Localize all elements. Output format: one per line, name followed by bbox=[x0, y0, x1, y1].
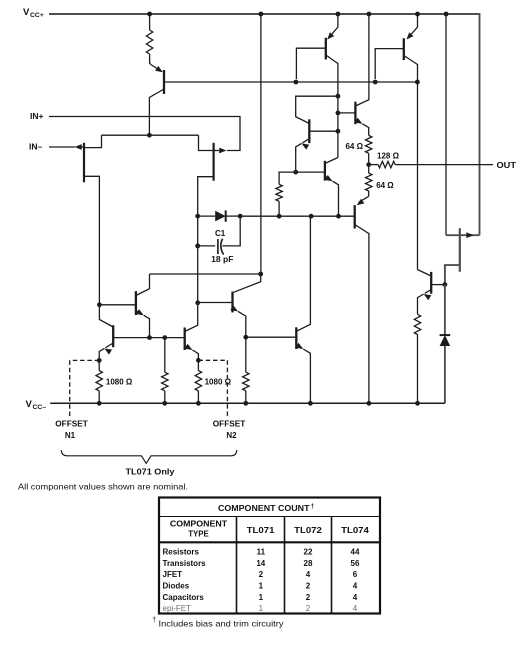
wire Q2 collector bbox=[337, 63, 339, 158]
wire Q13 base wire bbox=[246, 336, 296, 338]
wire Q7 base bbox=[296, 171, 325, 173]
label TL071 Only bbox=[126, 467, 175, 477]
label C1 bbox=[215, 229, 226, 238]
svg-text:Capacitors: Capacitors bbox=[163, 593, 205, 602]
svg-text:1080 Ω: 1080 Ω bbox=[106, 377, 133, 386]
svg-text:OFFSET: OFFSET bbox=[213, 420, 246, 429]
resistor R4 64ohm bbox=[366, 165, 372, 197]
svg-text:1: 1 bbox=[259, 581, 264, 590]
label footnote bbox=[152, 617, 284, 629]
wire source tie bbox=[102, 134, 199, 136]
resistor R2 64ohm bbox=[366, 135, 372, 164]
svg-text:1: 1 bbox=[259, 604, 264, 613]
resistor R1 bbox=[146, 14, 152, 65]
label 1080 N1 bbox=[106, 377, 133, 386]
label 1080 N2 bbox=[205, 377, 232, 386]
resistor R6 1080 bbox=[96, 360, 102, 403]
wire Q9Q10 base tie bbox=[99, 304, 135, 306]
node VCC- dots bbox=[97, 401, 420, 406]
svg-text:1080 Ω: 1080 Ω bbox=[205, 377, 232, 386]
node out mid bbox=[366, 162, 371, 167]
label 64 upper bbox=[345, 142, 363, 151]
svg-text:Includes bias and trim circuit: Includes bias and trim circuitry bbox=[159, 620, 285, 629]
node C1 left node bbox=[195, 244, 200, 249]
svg-text:TL071: TL071 bbox=[247, 525, 275, 535]
svg-text:2: 2 bbox=[306, 581, 311, 590]
transistor Q9 bbox=[99, 305, 113, 361]
svg-text:N2: N2 bbox=[226, 431, 237, 440]
node Q12 coll node bbox=[258, 272, 263, 277]
node Q12 emitter node bbox=[243, 335, 248, 340]
label 128 bbox=[377, 152, 400, 161]
jfet J2 bbox=[198, 135, 227, 322]
wire VCC+ rail bbox=[49, 13, 480, 235]
wire Q3 collector bbox=[417, 64, 419, 270]
resistor R3 128ohm bbox=[369, 161, 493, 167]
node Q7 base node bbox=[293, 170, 298, 175]
transistor Q8 bbox=[355, 196, 369, 403]
label IN+ bbox=[30, 111, 44, 121]
label VCC+ bbox=[23, 7, 44, 19]
svg-text:TYPE: TYPE bbox=[188, 530, 209, 539]
table title bbox=[218, 503, 315, 513]
svg-text:†: † bbox=[311, 503, 315, 510]
svg-text:CC–: CC– bbox=[33, 404, 47, 411]
wire VCC- rail bbox=[50, 402, 445, 404]
transistor Q3 bbox=[375, 14, 417, 79]
node base-rail dots bbox=[294, 80, 420, 85]
svg-text:Diodes: Diodes bbox=[163, 581, 190, 590]
svg-text:OFFSET: OFFSET bbox=[55, 420, 88, 429]
node offset N2 node bbox=[196, 358, 201, 363]
wire Q10 collector to Q12 bbox=[150, 273, 261, 275]
label 18 pF bbox=[211, 255, 233, 264]
resistor R7 bbox=[162, 338, 168, 404]
transistor Q6 bbox=[338, 14, 369, 135]
transistor Q2 bbox=[296, 14, 338, 79]
svg-text:64 Ω: 64 Ω bbox=[345, 142, 363, 151]
label OFFSET N1 bbox=[55, 420, 88, 441]
svg-text:OUT: OUT bbox=[497, 160, 517, 170]
svg-text:†: † bbox=[152, 617, 156, 624]
resistor R9 bbox=[243, 337, 249, 403]
svg-text:C1: C1 bbox=[215, 229, 226, 238]
node tail junction bbox=[147, 133, 152, 138]
transistor Q14 bbox=[418, 270, 445, 315]
transistor Q12 bbox=[198, 274, 261, 337]
svg-text:TL071 Only: TL071 Only bbox=[126, 467, 175, 477]
svg-text:IN–: IN– bbox=[29, 142, 43, 152]
label OFFSET N2 bbox=[213, 420, 246, 441]
node Q5 dots bbox=[336, 94, 341, 134]
svg-text:1: 1 bbox=[259, 593, 264, 602]
label 64 lower bbox=[376, 181, 394, 190]
svg-text:11: 11 bbox=[257, 547, 266, 556]
wire dashed offset N2 bbox=[198, 360, 227, 417]
svg-text:28: 28 bbox=[304, 559, 313, 568]
svg-text:64 Ω: 64 Ω bbox=[376, 181, 394, 190]
table component count frame bbox=[159, 498, 380, 614]
svg-text:6: 6 bbox=[353, 570, 358, 579]
svg-text:4: 4 bbox=[353, 593, 358, 602]
wire IN- bbox=[49, 146, 75, 148]
svg-text:CC+: CC+ bbox=[30, 12, 44, 19]
svg-text:N1: N1 bbox=[65, 431, 76, 440]
transistor Q11 bbox=[185, 322, 199, 360]
node comp net dots bbox=[277, 214, 341, 219]
svg-text:TL072: TL072 bbox=[294, 525, 322, 535]
svg-text:TL074: TL074 bbox=[341, 525, 369, 535]
diode D2 bbox=[440, 285, 451, 404]
node VCC+ junction dots on rail bbox=[147, 12, 448, 17]
transistor Q1 bbox=[149, 65, 164, 136]
svg-text:4: 4 bbox=[353, 581, 358, 590]
svg-text:V: V bbox=[26, 399, 33, 410]
node Q14 base node bbox=[443, 282, 448, 287]
capacitor C1 bbox=[198, 216, 241, 255]
resistor R5 bbox=[276, 172, 296, 216]
transistor Q5 bbox=[296, 96, 338, 172]
node diode nodes bbox=[195, 214, 242, 219]
table column headers bbox=[170, 519, 369, 538]
svg-text:Transistors: Transistors bbox=[163, 559, 207, 568]
svg-text:2: 2 bbox=[306, 593, 311, 602]
svg-text:epi-FET: epi-FET bbox=[163, 604, 192, 613]
wire Q1 base rail bbox=[164, 81, 417, 83]
label OUT bbox=[497, 160, 517, 170]
resistor R8 1080 bbox=[195, 360, 201, 403]
svg-text:4: 4 bbox=[306, 570, 311, 579]
svg-text:2: 2 bbox=[306, 604, 311, 613]
table rows bbox=[163, 547, 360, 613]
brace TL071 only bbox=[61, 450, 237, 463]
wire IN+ to gate bbox=[49, 117, 240, 151]
wire comp output net bbox=[240, 215, 355, 217]
svg-text:IN+: IN+ bbox=[30, 111, 44, 121]
wire dashed offset N1 bbox=[70, 360, 100, 417]
node offset N1 node bbox=[97, 358, 102, 363]
node mirror dots bbox=[147, 335, 167, 340]
svg-text:COMPONENT COUNT: COMPONENT COUNT bbox=[218, 503, 310, 513]
diode D1 bbox=[198, 210, 241, 221]
svg-text:2: 2 bbox=[259, 570, 264, 579]
jfet J3 epi-FET bbox=[445, 14, 480, 285]
node Q9 base-coll node bbox=[97, 302, 102, 307]
svg-text:14: 14 bbox=[256, 559, 265, 568]
transistor Q7 bbox=[325, 158, 339, 217]
svg-text:44: 44 bbox=[351, 547, 360, 556]
svg-text:Resistors: Resistors bbox=[163, 547, 200, 556]
node J2 drain dots bbox=[195, 244, 200, 306]
label note nominal bbox=[18, 483, 188, 492]
wire mirror base rail bbox=[113, 337, 185, 339]
svg-text:18 pF: 18 pF bbox=[211, 255, 233, 264]
jfet J1 bbox=[75, 135, 102, 305]
svg-text:COMPONENT: COMPONENT bbox=[170, 519, 227, 528]
label IN- bbox=[29, 142, 43, 152]
svg-text:All component values shown are: All component values shown are nominal. bbox=[18, 483, 188, 492]
label VCC- bbox=[26, 399, 47, 411]
svg-text:4: 4 bbox=[353, 604, 358, 613]
svg-text:V: V bbox=[23, 7, 30, 18]
transistor Q10 bbox=[136, 274, 150, 338]
transistor Q13 bbox=[296, 216, 311, 403]
svg-text:128 Ω: 128 Ω bbox=[377, 152, 400, 161]
svg-text:56: 56 bbox=[351, 559, 360, 568]
svg-text:JFET: JFET bbox=[163, 570, 183, 579]
svg-text:22: 22 bbox=[304, 547, 313, 556]
wire Q12 vertical from rail bbox=[260, 14, 262, 274]
resistor R10 bbox=[414, 314, 420, 403]
